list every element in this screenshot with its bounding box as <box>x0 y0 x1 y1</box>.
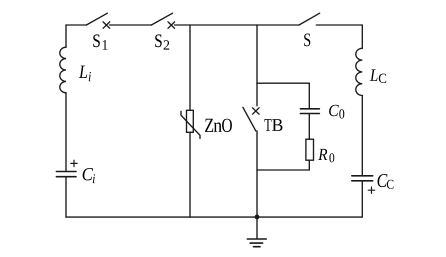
varistor ZnO body <box>187 110 194 132</box>
ground bar 2 <box>250 242 262 244</box>
ground bar 1 <box>247 238 266 240</box>
resistor R0 body <box>306 139 314 160</box>
capacitor Ci plus sign <box>71 160 77 166</box>
wire R0 lower stub <box>308 160 310 170</box>
label Li <box>79 66 91 82</box>
label S1 <box>93 34 107 49</box>
label S <box>304 34 310 47</box>
wire left branch upper <box>65 25 67 47</box>
switch S1 blade <box>86 13 107 25</box>
label LC <box>370 69 386 83</box>
label R0 <box>318 149 334 163</box>
wire TB upper stub <box>256 83 258 106</box>
switch S2 contact cross <box>168 22 175 28</box>
label ZnO <box>205 119 232 132</box>
label CC <box>378 174 394 189</box>
capacitor CC plates <box>352 176 373 181</box>
wire ZnO branch lower <box>189 132 191 217</box>
label TB <box>264 119 282 131</box>
switch S1 contact cross <box>103 22 110 28</box>
label C0 <box>329 105 344 119</box>
label S2 <box>155 34 169 49</box>
switch S2 blade <box>151 13 172 25</box>
wire TB branch from top bus <box>256 25 258 83</box>
wire right branch upper <box>361 25 363 48</box>
wire top bus between S2 and S <box>175 24 300 26</box>
wire top bus left segment <box>66 24 86 26</box>
wire horizontal from R0 branch bottom <box>257 169 309 171</box>
switch TB contact cross <box>253 108 260 114</box>
switch S blade <box>299 13 320 25</box>
wire left branch lower <box>65 177 67 217</box>
inductor Li <box>60 47 66 93</box>
wire top bus right segment <box>316 24 362 26</box>
capacitor C0 plates <box>300 109 319 114</box>
capacitor CC plus sign <box>368 187 374 193</box>
wire bottom bus <box>66 216 362 218</box>
wire C0 branch upper stub <box>308 83 310 109</box>
varistor ZnO diagonal stroke <box>181 111 200 138</box>
wire between C0 and R0 <box>308 114 310 140</box>
wire horizontal to C0R0 branch top <box>257 82 309 84</box>
wire ground stem <box>256 217 258 238</box>
node junction dot at ground <box>255 215 260 220</box>
label Ci <box>83 168 95 183</box>
inductor LC <box>356 48 363 95</box>
wire right branch middle <box>361 96 363 176</box>
wire right branch lower <box>361 181 363 217</box>
switch TB blade <box>243 107 256 131</box>
ground bar 3 <box>254 246 261 248</box>
wire ZnO branch upper <box>189 25 191 110</box>
wire TB lower <box>256 131 258 217</box>
capacitor Ci plates <box>56 172 76 177</box>
wire left branch middle <box>65 93 67 172</box>
wire top bus between S1 and S2 <box>110 24 152 26</box>
